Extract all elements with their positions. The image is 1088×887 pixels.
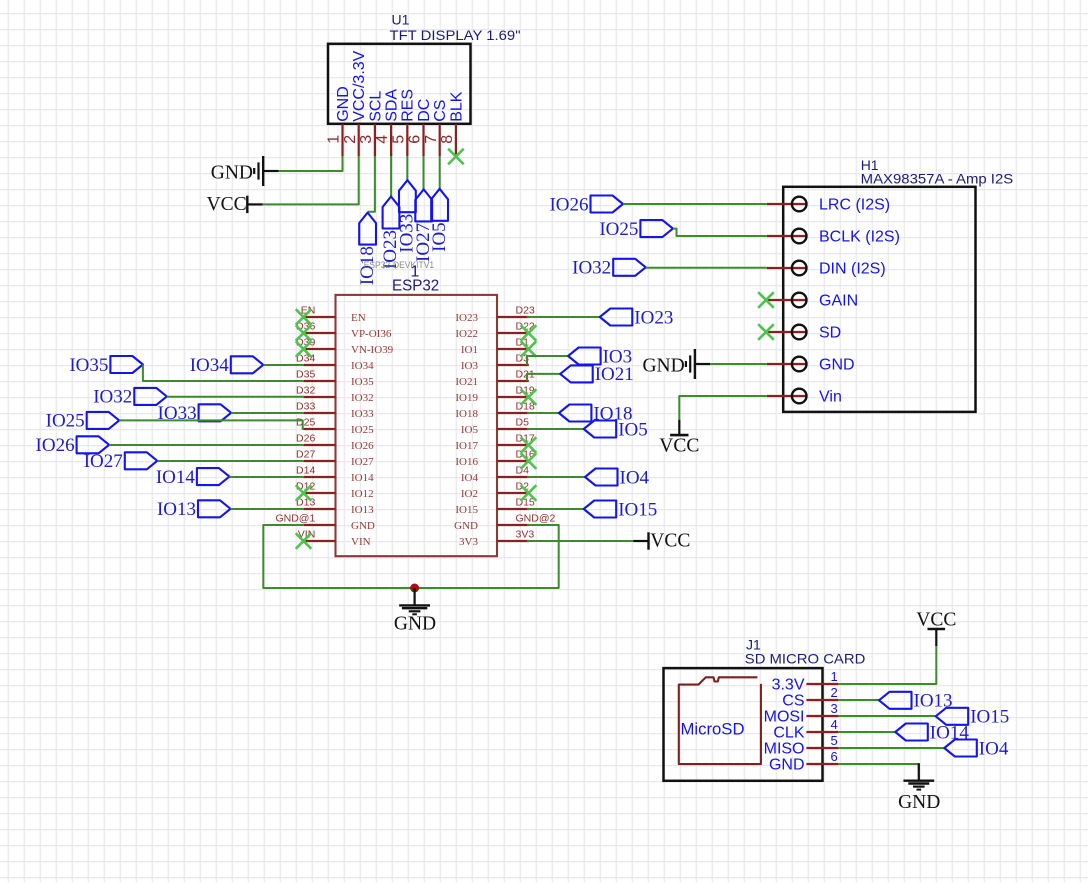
power VCC flag (J1) bbox=[916, 610, 956, 647]
U1 pin stubs 1-8 bbox=[343, 124, 456, 156]
svg-text:CS: CS bbox=[432, 100, 449, 122]
net label IO5 (right) bbox=[584, 419, 648, 440]
wire IO32 to DIN bbox=[646, 267, 767, 269]
no-connect X U1 pin8 BLK bbox=[448, 149, 464, 165]
wire 3V3 to VCC bbox=[527, 540, 633, 542]
net label IO35 bbox=[69, 355, 143, 376]
wire IO26 to LRC bbox=[623, 203, 767, 205]
svg-text:GND@1: GND@1 bbox=[275, 513, 315, 525]
svg-text:U1: U1 bbox=[392, 12, 410, 28]
net label IO26 (H1) bbox=[549, 194, 623, 215]
wire IO25 to D25 bbox=[119, 420, 304, 429]
svg-text:IO25: IO25 bbox=[46, 411, 85, 432]
svg-text:4: 4 bbox=[831, 717, 838, 732]
svg-text:VP-OI36: VP-OI36 bbox=[351, 328, 392, 340]
svg-text:GND: GND bbox=[335, 86, 352, 122]
wire GND flag to H1 GND bbox=[710, 363, 767, 365]
svg-text:IO4: IO4 bbox=[461, 472, 479, 484]
svg-text:3: 3 bbox=[358, 135, 375, 144]
net label IO32 (H1) bbox=[572, 258, 646, 279]
svg-text:IO17: IO17 bbox=[455, 440, 478, 452]
svg-text:2: 2 bbox=[831, 685, 838, 700]
svg-text:IO14: IO14 bbox=[351, 472, 374, 484]
power VCC flag (H1 Vin) bbox=[659, 420, 699, 457]
wire D15 to IO15 bbox=[527, 508, 584, 510]
net label IO5 (U1) bbox=[429, 189, 450, 252]
svg-text:GND: GND bbox=[898, 792, 940, 813]
svg-text:2: 2 bbox=[342, 135, 359, 144]
svg-text:D14: D14 bbox=[296, 465, 315, 477]
wire IO27 to D27 bbox=[157, 460, 304, 462]
svg-text:3: 3 bbox=[831, 701, 838, 716]
svg-text:IO22: IO22 bbox=[455, 328, 478, 340]
no-connect X H1 GAIN bbox=[758, 292, 774, 308]
svg-text:D25: D25 bbox=[296, 417, 315, 429]
svg-text:GND: GND bbox=[819, 357, 855, 374]
svg-text:LRC (I2S): LRC (I2S) bbox=[819, 197, 890, 214]
svg-text:D32: D32 bbox=[296, 385, 315, 397]
svg-text:BLK: BLK bbox=[448, 91, 465, 122]
svg-text:5: 5 bbox=[390, 135, 407, 144]
svg-text:IO21: IO21 bbox=[455, 376, 478, 388]
svg-text:ESP32-DEVKITV1: ESP32-DEVKITV1 bbox=[364, 260, 434, 271]
wire IO13 to D13 bbox=[231, 508, 305, 510]
svg-text:GND: GND bbox=[642, 355, 684, 376]
ESP32 right pin labels bbox=[516, 305, 556, 541]
net label IO23 (U1) bbox=[380, 197, 401, 270]
svg-text:IO16: IO16 bbox=[455, 456, 478, 468]
net label IO33 (U1) bbox=[397, 180, 418, 253]
svg-text:IO26: IO26 bbox=[549, 194, 588, 215]
svg-text:IO34: IO34 bbox=[351, 360, 374, 372]
no-connect X ESP32 EN bbox=[296, 309, 312, 325]
svg-text:GND@2: GND@2 bbox=[516, 513, 556, 525]
net label IO15 (right) bbox=[584, 499, 658, 520]
svg-text:IO4: IO4 bbox=[620, 467, 650, 488]
svg-text:IO13: IO13 bbox=[157, 499, 196, 520]
svg-text:IO25: IO25 bbox=[599, 219, 638, 240]
svg-text:6: 6 bbox=[831, 749, 838, 764]
svg-text:7: 7 bbox=[423, 135, 440, 144]
net label IO23 (right) bbox=[600, 307, 674, 328]
svg-text:ESP32: ESP32 bbox=[392, 278, 439, 295]
svg-text:VCC: VCC bbox=[650, 530, 690, 551]
wire J1 GND down bbox=[838, 764, 918, 771]
svg-text:VCC: VCC bbox=[206, 194, 246, 215]
wire J1 CLK to IO14 bbox=[838, 731, 895, 733]
svg-text:3.3V: 3.3V bbox=[772, 677, 805, 694]
svg-text:IO32: IO32 bbox=[93, 387, 132, 408]
svg-text:5: 5 bbox=[831, 733, 838, 748]
net label IO13 (J1) bbox=[879, 691, 953, 712]
net label IO14 (J1) bbox=[895, 722, 969, 743]
wire GND rail (GND@1 to GND@2) bbox=[263, 525, 558, 588]
svg-text:IO15: IO15 bbox=[970, 707, 1009, 728]
svg-text:IO14: IO14 bbox=[156, 467, 196, 488]
svg-text:IO35: IO35 bbox=[69, 355, 108, 376]
svg-text:VCC: VCC bbox=[659, 436, 699, 457]
svg-text:MISO: MISO bbox=[764, 741, 805, 758]
wire U1 pin2 VCC net bbox=[263, 156, 359, 204]
svg-text:DC: DC bbox=[416, 99, 433, 122]
svg-text:VIN: VIN bbox=[351, 536, 371, 548]
J1 pin numbers 1-6 bbox=[831, 669, 838, 764]
svg-text:GND: GND bbox=[454, 520, 478, 532]
svg-text:1: 1 bbox=[831, 669, 838, 684]
wire D5 to IO5 bbox=[527, 428, 584, 430]
net label IO18 (U1) bbox=[357, 213, 378, 286]
wire D3 to IO3 bbox=[527, 356, 568, 365]
wire D4 to IO4 bbox=[527, 476, 585, 478]
svg-text:IO25: IO25 bbox=[351, 424, 374, 436]
svg-text:D35: D35 bbox=[296, 369, 315, 381]
net label IO15 (J1) bbox=[936, 707, 1010, 728]
U1 title bbox=[390, 12, 521, 44]
net label IO14 (left) bbox=[156, 467, 230, 488]
no-connect X ESP32 D22 bbox=[521, 325, 537, 341]
svg-text:IO3: IO3 bbox=[461, 360, 479, 372]
svg-text:IO15: IO15 bbox=[618, 499, 657, 520]
net label IO27 (U1) bbox=[413, 189, 434, 262]
wire IO32 to D32 bbox=[167, 396, 304, 398]
ESP32 left pin stubs bbox=[304, 317, 336, 541]
H1 title bbox=[861, 157, 1014, 187]
svg-text:BCLK (I2S): BCLK (I2S) bbox=[819, 229, 900, 246]
svg-text:GAIN: GAIN bbox=[819, 293, 858, 310]
svg-text:IO26: IO26 bbox=[36, 435, 75, 456]
H1 pin stubs and circles bbox=[767, 197, 807, 404]
svg-text:IO15: IO15 bbox=[455, 504, 478, 516]
svg-text:IO19: IO19 bbox=[455, 392, 478, 404]
ESP32 title bbox=[392, 278, 439, 295]
ESP32 right pin stubs bbox=[497, 317, 529, 541]
net label IO25 (H1) bbox=[599, 219, 673, 240]
svg-text:IO18: IO18 bbox=[455, 408, 478, 420]
no-connect X ESP32 D2 bbox=[521, 485, 537, 501]
svg-text:GND: GND bbox=[394, 614, 436, 635]
svg-text:VCC: VCC bbox=[916, 610, 956, 631]
svg-text:CLK: CLK bbox=[773, 725, 804, 742]
no-connect X H1 SD bbox=[758, 324, 774, 340]
svg-text:IO1: IO1 bbox=[461, 344, 478, 356]
net label IO25 (left) bbox=[46, 411, 120, 432]
svg-text:IO5: IO5 bbox=[618, 419, 648, 440]
net label IO33 (left) bbox=[158, 403, 232, 424]
svg-text:4: 4 bbox=[374, 135, 391, 144]
wire IO34 to D34 bbox=[263, 364, 304, 366]
net label IO4 (J1) bbox=[944, 738, 1009, 759]
svg-text:IO32: IO32 bbox=[351, 392, 374, 404]
svg-text:IO35: IO35 bbox=[351, 376, 374, 388]
svg-text:6: 6 bbox=[407, 135, 424, 144]
wire U1 pin6 DC to IO27 bbox=[423, 156, 425, 189]
ground earth symbol (ESP32 GND) bbox=[394, 588, 436, 635]
svg-text:1: 1 bbox=[326, 135, 343, 144]
wire IO35 to D35 bbox=[143, 365, 304, 382]
svg-text:D18: D18 bbox=[516, 401, 535, 413]
svg-text:3V3: 3V3 bbox=[516, 529, 535, 541]
svg-text:DIN (I2S): DIN (I2S) bbox=[819, 261, 886, 278]
svg-text:D27: D27 bbox=[296, 449, 315, 461]
J1 microSD card outline bbox=[679, 677, 761, 764]
ground GND flag (U1 pin1) bbox=[211, 156, 279, 186]
net label IO34 bbox=[190, 355, 264, 376]
svg-text:MicroSD: MicroSD bbox=[681, 720, 745, 739]
svg-text:D5: D5 bbox=[516, 417, 530, 429]
net label IO4 (right) bbox=[585, 467, 650, 488]
wire U1 pin5 RES to IO33 bbox=[406, 156, 408, 180]
U1 pin numbers 1-8 bbox=[326, 135, 456, 144]
net label IO27 (left) bbox=[84, 451, 158, 472]
svg-text:D33: D33 bbox=[296, 401, 315, 413]
svg-text:8: 8 bbox=[439, 135, 456, 144]
svg-text:RES: RES bbox=[400, 89, 417, 122]
svg-text:MAX98357A - Amp I2S: MAX98357A - Amp I2S bbox=[861, 171, 1014, 187]
svg-text:IO32: IO32 bbox=[572, 258, 611, 279]
net label IO21 bbox=[560, 364, 634, 385]
svg-text:IO2: IO2 bbox=[461, 488, 478, 500]
svg-text:IO34: IO34 bbox=[190, 355, 230, 376]
net label IO26 (left) bbox=[36, 435, 110, 456]
power VCC flag (3V3) bbox=[633, 530, 690, 551]
junction dot GND rail bbox=[410, 584, 419, 593]
svg-text:IO23: IO23 bbox=[634, 307, 673, 328]
svg-text:SDA: SDA bbox=[384, 89, 401, 122]
no-connect X ESP32 D1 bbox=[521, 341, 537, 357]
net label IO13 (left) bbox=[157, 499, 231, 520]
svg-text:GND: GND bbox=[351, 520, 375, 532]
connector J1 SD MICRO CARD body bbox=[664, 668, 823, 781]
wire U1 pin4 SDA to IO23 bbox=[390, 156, 392, 197]
wire J1 MISO to IO4 bbox=[838, 747, 944, 749]
svg-text:GND: GND bbox=[211, 162, 253, 183]
svg-text:IO27: IO27 bbox=[84, 451, 123, 472]
IC H1 MAX98357A Amp I2S body and pin names bbox=[783, 187, 975, 412]
wire IO25 to BCLK bbox=[673, 229, 767, 236]
svg-text:Vin: Vin bbox=[819, 389, 842, 406]
no-connect X ESP32 VIN bbox=[296, 533, 312, 549]
wire IO33 to D33 bbox=[231, 412, 304, 414]
no-connect X ESP32 D39 bbox=[296, 341, 312, 357]
wire D23 to IO23 bbox=[527, 316, 600, 318]
svg-text:IO33: IO33 bbox=[351, 408, 374, 420]
wire U1 pin3 SCL to IO18 bbox=[368, 156, 375, 212]
connector U1 TFT DISPLAY 1.69" body and pin names bbox=[328, 44, 471, 124]
svg-text:CS: CS bbox=[782, 693, 804, 710]
wire IO26 to D26 bbox=[109, 444, 304, 446]
svg-text:EN: EN bbox=[351, 312, 366, 324]
net label IO3 bbox=[568, 346, 632, 367]
ground GND flag (H1) bbox=[642, 349, 710, 379]
no-connect X ESP32 D12 bbox=[296, 485, 312, 501]
wire J1 CS to IO13 bbox=[838, 699, 879, 701]
net label IO18 (right) bbox=[559, 403, 633, 424]
ESP32-DEVKITV1 annotation bbox=[364, 260, 434, 280]
svg-text:SD: SD bbox=[819, 325, 841, 342]
wire IO14 to D14 bbox=[229, 476, 304, 478]
svg-text:GND: GND bbox=[769, 757, 805, 774]
svg-text:IO12: IO12 bbox=[351, 488, 374, 500]
svg-text:SD MICRO CARD: SD MICRO CARD bbox=[745, 651, 866, 667]
svg-text:IO4: IO4 bbox=[979, 738, 1009, 759]
svg-text:VN-IO39: VN-IO39 bbox=[351, 344, 394, 356]
svg-text:D26: D26 bbox=[296, 433, 315, 445]
wire J1 MOSI to IO15 bbox=[838, 715, 935, 717]
no-connect X ESP32 D19 bbox=[521, 389, 537, 405]
svg-text:SCL: SCL bbox=[367, 91, 384, 122]
svg-text:TFT DISPLAY 1.69": TFT DISPLAY 1.69" bbox=[390, 27, 521, 43]
svg-text:IO13: IO13 bbox=[351, 504, 374, 516]
svg-text:IO5: IO5 bbox=[429, 222, 450, 252]
no-connect X ESP32 D17 bbox=[521, 437, 537, 453]
J1 pin stubs bbox=[806, 684, 838, 764]
no-connect X ESP32 D16 bbox=[521, 453, 537, 469]
no-connect X ESP32 D36 bbox=[296, 325, 312, 341]
svg-text:VCC/3.3V: VCC/3.3V bbox=[351, 50, 368, 121]
power VCC flag (U1 pin2) bbox=[206, 194, 262, 215]
svg-text:IO23: IO23 bbox=[455, 312, 478, 324]
svg-text:D15: D15 bbox=[516, 497, 535, 509]
svg-text:3V3: 3V3 bbox=[459, 536, 478, 548]
wire U1 pin1 GND net bbox=[279, 156, 343, 171]
svg-text:IO5: IO5 bbox=[461, 424, 479, 436]
svg-text:MOSI: MOSI bbox=[764, 709, 805, 726]
svg-text:IO21: IO21 bbox=[595, 364, 634, 385]
svg-text:IO26: IO26 bbox=[351, 440, 374, 452]
svg-text:IO27: IO27 bbox=[351, 456, 374, 468]
wire D21 to IO21 bbox=[527, 374, 560, 381]
ground earth symbol (J1) bbox=[898, 763, 940, 813]
ESP32 left pin labels bbox=[275, 305, 315, 541]
IC ESP32 module body and pin names bbox=[336, 295, 498, 556]
wire D18 to IO18 bbox=[527, 412, 559, 414]
wire J1 3.3V to VCC bbox=[838, 646, 936, 684]
net label IO32 (left) bbox=[93, 387, 167, 408]
J1 title bbox=[745, 637, 866, 667]
wire H1 Vin to VCC bbox=[679, 396, 767, 420]
wire U1 pin7 CS to IO5 bbox=[439, 156, 441, 189]
svg-text:D23: D23 bbox=[516, 305, 535, 317]
